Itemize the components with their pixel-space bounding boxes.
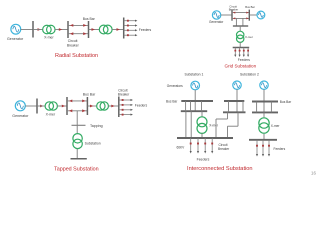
svg-text:Radial Substation: Radial Substation <box>55 53 98 59</box>
svg-text:Tapping: Tapping <box>90 124 103 128</box>
svg-text:Substation: Substation <box>85 142 101 146</box>
svg-text:Substation 1: Substation 1 <box>185 72 204 76</box>
svg-text:Generator: Generator <box>209 20 224 24</box>
svg-text:Bus Bar: Bus Bar <box>245 5 255 9</box>
svg-text:Breaker: Breaker <box>229 8 239 12</box>
svg-text:Feeders: Feeders <box>139 28 152 32</box>
svg-text:Bus Bar: Bus Bar <box>166 99 178 103</box>
svg-text:Breaker: Breaker <box>118 93 130 97</box>
svg-text:Tapped Substation: Tapped Substation <box>54 167 99 173</box>
svg-text:Circuit: Circuit <box>68 39 78 43</box>
svg-text:X-mer: X-mer <box>44 36 54 40</box>
svg-text:Interconnected Substation: Interconnected Substation <box>187 166 253 172</box>
svg-text:Breaker: Breaker <box>218 147 230 151</box>
svg-text:X-mer: X-mer <box>209 123 219 127</box>
svg-text:Generator: Generator <box>7 37 24 41</box>
svg-text:Feeders: Feeders <box>135 103 148 107</box>
svg-text:X-mer: X-mer <box>46 113 56 117</box>
svg-text:X-mer: X-mer <box>271 124 281 128</box>
svg-text:Generator: Generator <box>12 114 29 118</box>
svg-text:Generators: Generators <box>167 84 183 88</box>
svg-text:Breaker: Breaker <box>67 44 80 48</box>
svg-text:Substation 2: Substation 2 <box>240 72 259 76</box>
svg-text:Bus Bar: Bus Bar <box>83 93 96 97</box>
svg-text:16: 16 <box>311 170 316 175</box>
svg-text:Feeders: Feeders <box>274 147 286 151</box>
svg-text:Grid Substation: Grid Substation <box>225 64 257 69</box>
svg-text:X-mer: X-mer <box>245 35 253 39</box>
svg-text:Bus Bar: Bus Bar <box>280 100 292 104</box>
svg-text:Feeders: Feeders <box>238 58 250 62</box>
svg-text:Feeders: Feeders <box>197 157 210 161</box>
svg-text:66KV: 66KV <box>177 146 186 150</box>
svg-text:Bus Bar: Bus Bar <box>83 17 96 21</box>
